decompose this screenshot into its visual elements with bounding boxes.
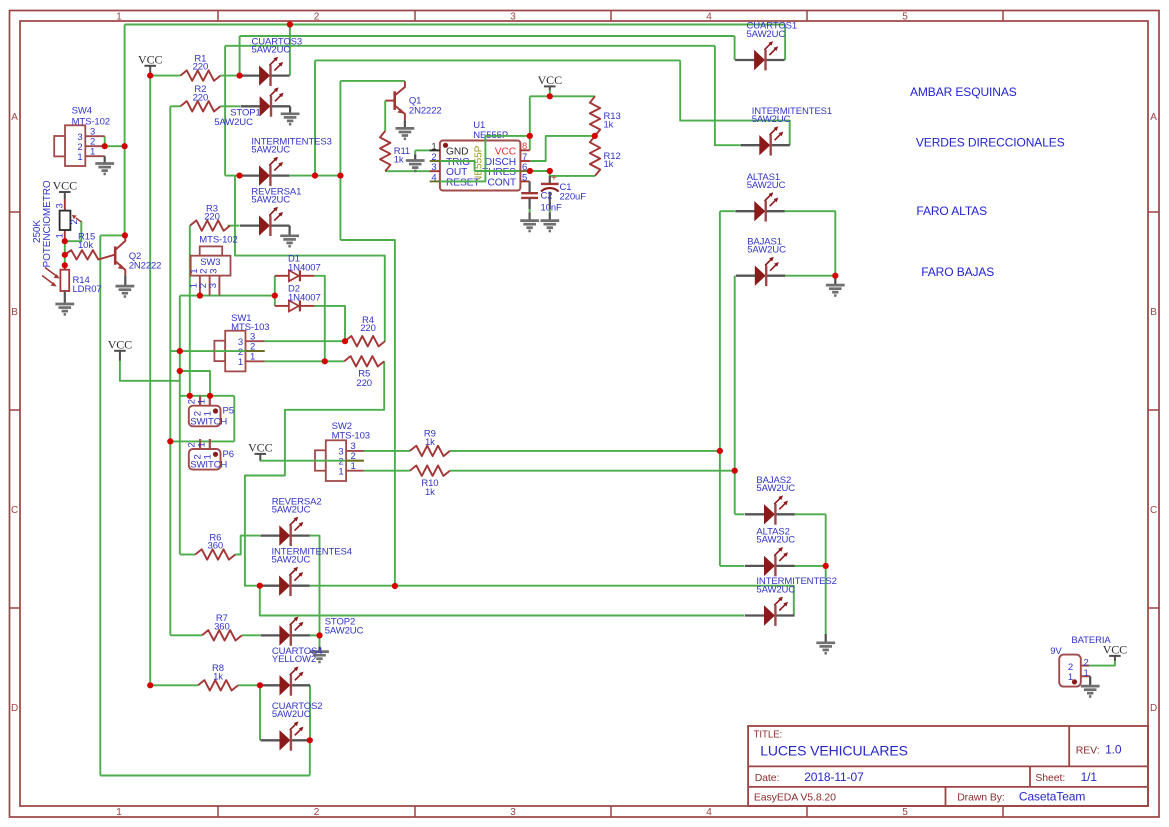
svg-text:1: 1	[338, 466, 343, 477]
svg-text:YELLOW2: YELLOW2	[272, 654, 316, 665]
wire RESET route	[440, 136, 530, 182]
LED INTERMITENTES4	[260, 585, 279, 587]
svg-text:1: 1	[431, 141, 436, 152]
wire VCC5 to SW2 pin2	[260, 459, 364, 462]
wire REVERSA2 cathode drop	[310, 536, 320, 636]
switch SW4 MTS-102	[65, 125, 85, 166]
wire R3 to REVERSA1	[228, 225, 240, 227]
wire Q1 base	[384, 100, 387, 102]
svg-text:1: 1	[116, 807, 122, 818]
wire ALTAS vertical	[719, 211, 721, 566]
wire R11 to OUT	[385, 170, 430, 172]
resistor R8	[198, 680, 238, 690]
svg-text:5AW2UC: 5AW2UC	[252, 44, 291, 55]
svg-text:VCC: VCC	[53, 179, 77, 193]
frame row ticks right	[1148, 211, 1159, 213]
ground below C2	[528, 219, 530, 222]
wire D1 cathode run	[314, 276, 325, 362]
wire ALTAS2 anode	[720, 565, 745, 567]
svg-text:P6: P6	[223, 449, 234, 460]
svg-text:TITLE:: TITLE:	[754, 730, 782, 741]
photoresistor R14 arrows	[45, 268, 57, 277]
svg-text:FARO ALTAS: FARO ALTAS	[916, 204, 987, 218]
resistor R6	[195, 549, 235, 559]
wire R6 left riser	[180, 554, 195, 556]
svg-text:AMBAR ESQUINAS: AMBAR ESQUINAS	[910, 85, 1017, 99]
capacitor C2 10nF	[528, 181, 530, 193]
wire CUARTOS1 cathode riser	[784, 25, 786, 61]
svg-text:1: 1	[116, 12, 122, 23]
ground below C1	[549, 219, 551, 222]
wire VCC4 stub	[549, 90, 551, 96]
LED CUARTOS3	[240, 74, 259, 76]
wire R9 rail	[450, 450, 720, 452]
transistor Q2 2N2222	[114, 246, 117, 264]
wire R2 elbow	[170, 105, 180, 107]
svg-text:1k: 1k	[394, 154, 404, 165]
wire P5 to P6 link	[233, 396, 235, 442]
resistor R3	[190, 220, 230, 230]
wire Q1 base drop to R11	[384, 101, 386, 131]
wire VCC4 rail	[530, 95, 595, 97]
SW1 pin leads	[246, 340, 265, 342]
resistor R10	[410, 466, 450, 476]
svg-text:220: 220	[360, 323, 376, 334]
wire D2 cathode run	[314, 306, 345, 341]
svg-text:P5: P5	[223, 406, 234, 417]
svg-text:Sheet:: Sheet:	[1035, 772, 1065, 784]
svg-text:3: 3	[208, 283, 219, 288]
svg-text:VCC: VCC	[108, 337, 132, 351]
wire BAJAS2 anode	[735, 513, 745, 515]
resistor R4	[345, 336, 385, 346]
ground at BAJAS1 cathode	[834, 276, 836, 285]
wire y46 rail	[225, 45, 715, 47]
svg-text:2: 2	[314, 807, 320, 818]
wire BAJAS2 ground drop	[825, 514, 827, 634]
svg-text:B: B	[11, 307, 18, 318]
svg-text:5AW2UC: 5AW2UC	[756, 584, 795, 595]
connector BATERIA 9V	[1059, 655, 1081, 687]
resistor R7	[202, 630, 242, 640]
wire GND1	[415, 149, 430, 151]
wire SW4 pin2 link	[105, 145, 125, 147]
svg-text:1: 1	[238, 357, 243, 368]
svg-text:5AW2UC: 5AW2UC	[325, 626, 364, 637]
svg-text:5AW2UC: 5AW2UC	[747, 29, 786, 40]
svg-text:C: C	[11, 505, 18, 516]
wire CUARTOS3 cathode riser	[289, 25, 291, 76]
svg-text:3: 3	[510, 807, 516, 818]
wire R12 bottom to C1	[550, 171, 595, 176]
svg-text:220: 220	[193, 92, 209, 103]
wire CUARTOS1 anode drop	[734, 36, 736, 60]
svg-text:2N2222: 2N2222	[409, 106, 442, 117]
svg-text:1k: 1k	[213, 671, 223, 682]
switch SW2 MTS-103	[315, 450, 326, 470]
svg-text:5AW2UC: 5AW2UC	[272, 709, 311, 720]
wire INTERMITENTES4 cathode rail	[310, 586, 794, 616]
LED CUARTOS4	[261, 684, 280, 686]
wire Q1 collector run	[340, 80, 405, 82]
wire STOP2 cathode	[310, 634, 320, 636]
svg-text:EasyEDA V5.8.20: EasyEDA V5.8.20	[754, 791, 836, 803]
svg-text:4: 4	[706, 807, 712, 818]
wire battery to VCC	[1089, 661, 1115, 666]
svg-text:3: 3	[55, 203, 66, 208]
wire SW1 pin2 overlay	[214, 350, 245, 352]
svg-text:B: B	[1150, 307, 1157, 318]
wire BAJAS2 cathode route	[795, 513, 826, 515]
svg-text:1: 1	[351, 461, 356, 472]
wire CUARTOS4 cathode drop	[309, 685, 311, 740]
svg-text:1.0: 1.0	[1105, 743, 1122, 757]
svg-text:1: 1	[196, 399, 207, 404]
switch SW1 MTS-103	[214, 341, 225, 361]
svg-text:220: 220	[356, 378, 372, 389]
ground below R14	[64, 302, 66, 305]
svg-text:5AW2UC: 5AW2UC	[214, 117, 253, 128]
svg-text:C: C	[1150, 505, 1157, 516]
svg-text:1: 1	[196, 442, 207, 447]
LED REVERSA2	[260, 534, 279, 536]
svg-text:2018-11-07: 2018-11-07	[804, 770, 864, 784]
ground below STOP1	[289, 106, 291, 114]
svg-text:REV:: REV:	[1076, 745, 1100, 757]
svg-text:10k: 10k	[78, 240, 93, 251]
wire BAJAS1 cathode	[785, 275, 835, 277]
svg-text:4: 4	[706, 12, 712, 23]
BATERIA ground	[1089, 676, 1091, 686]
LED CUARTOS2	[261, 739, 280, 741]
wire THRES row	[475, 170, 520, 172]
potentiometer wiper arrow	[76, 218, 81, 222]
LED STOP2	[260, 634, 279, 636]
svg-text:1: 1	[250, 351, 255, 362]
LED STOP1	[241, 105, 260, 107]
svg-text:5: 5	[522, 172, 527, 183]
potentiometer RV1 250K body	[64, 199, 66, 211]
diode D2 1N4007	[289, 300, 299, 311]
svg-text:CasetaTeam: CasetaTeam	[1019, 789, 1085, 803]
svg-text:SWITCH: SWITCH	[190, 416, 227, 427]
wire to Q2 collector	[100, 234, 125, 236]
wire ALTAS2 cathode	[795, 565, 826, 567]
wire SW2 pin2 overlay	[314, 460, 345, 462]
svg-text:5AW2UC: 5AW2UC	[752, 114, 791, 125]
wire x340 vertical	[339, 81, 341, 240]
wire ALTAS1 anode	[720, 210, 735, 212]
svg-text:SW3: SW3	[200, 257, 220, 268]
wire x235 drop to SW3 rail	[235, 176, 385, 342]
svg-text:MTS-102: MTS-102	[72, 116, 110, 127]
SW3 pin leads	[199, 276, 201, 296]
frame column ticks bottom	[217, 806, 219, 817]
wire into INTERMITENTES3 anode	[225, 175, 239, 177]
svg-text:FARO BAJAS: FARO BAJAS	[921, 265, 994, 279]
op-amp U1 NE555P box	[440, 141, 521, 191]
BATERIA pin leads	[1081, 665, 1090, 667]
U1 pin leads left	[430, 149, 440, 151]
svg-text:VCC: VCC	[138, 52, 162, 66]
LED BAJAS2	[745, 513, 764, 515]
wire x99 vertical	[99, 235, 101, 775]
wire D1 anode lead	[275, 275, 289, 277]
svg-text:360: 360	[208, 541, 224, 552]
wire R10 rail	[450, 470, 735, 472]
svg-text:5AW2UC: 5AW2UC	[272, 504, 311, 515]
svg-text:D: D	[1150, 703, 1157, 714]
wire jog to x395	[340, 240, 395, 586]
resistor R13	[590, 96, 600, 136]
svg-text:MTS-103: MTS-103	[332, 431, 370, 442]
ground below SW4 pin1	[104, 156, 106, 163]
wire R2 to STOP1	[220, 105, 240, 107]
wire top rail	[125, 24, 786, 26]
resistor R1	[180, 70, 220, 80]
wire GND1 drop	[414, 150, 416, 154]
svg-text:5: 5	[902, 12, 908, 23]
resistor R12	[590, 136, 600, 176]
SW4 pin leads	[85, 135, 104, 137]
wire BAJAS vertical	[734, 276, 736, 515]
LED INTERMITENTES1	[740, 144, 759, 146]
svg-text:2: 2	[314, 12, 320, 23]
ground below BAJAS2/ALTAS2	[825, 634, 827, 643]
svg-text:1: 1	[90, 146, 95, 157]
wire R1 riser	[239, 36, 241, 76]
junction dots	[147, 73, 153, 79]
P5 pin1 marker	[213, 408, 218, 413]
svg-text:VCC: VCC	[495, 146, 516, 157]
wire SW1 pin1 to R5	[265, 360, 345, 362]
wire x170 rail	[169, 106, 171, 635]
svg-text:VCC: VCC	[248, 440, 272, 454]
svg-text:360: 360	[214, 621, 230, 632]
title block outline	[748, 726, 1148, 806]
svg-text:8: 8	[522, 141, 527, 152]
svg-text:1k: 1k	[425, 437, 435, 448]
svg-text:C2: C2	[541, 191, 553, 202]
svg-text:LDR07: LDR07	[73, 284, 102, 295]
resistor R2	[180, 101, 220, 111]
wire SW4 pin3 elbow	[104, 136, 106, 146]
svg-text:GND: GND	[446, 146, 468, 157]
wire R7 to STOP2	[242, 634, 260, 636]
svg-text:MTS-103: MTS-103	[231, 322, 269, 333]
LED INTERMITENTES2	[745, 614, 764, 616]
ground below Q1	[404, 127, 406, 130]
wire P6 rail	[170, 440, 234, 442]
svg-text:SW4: SW4	[72, 106, 92, 117]
wire pin8 riser	[529, 96, 531, 150]
svg-text:2: 2	[69, 219, 80, 224]
svg-text:1/1: 1/1	[1081, 770, 1098, 784]
wire SW2 pin3 to R9	[364, 450, 410, 452]
diode D1 1N4007	[289, 270, 299, 281]
svg-text:5AW2UC: 5AW2UC	[756, 535, 795, 546]
svg-text:5AW2UC: 5AW2UC	[747, 245, 786, 256]
svg-text:5: 5	[902, 807, 908, 818]
wire R1 to CUARTOS3	[220, 75, 239, 77]
resistor R15	[65, 250, 115, 259]
wire y36 rail	[240, 35, 735, 37]
svg-text:1k: 1k	[604, 119, 614, 130]
svg-text:9V: 9V	[1050, 646, 1062, 657]
LED INTERMITENTES3	[240, 174, 259, 176]
ground below STOP2	[319, 635, 321, 646]
switch SW3 MTS-102	[200, 246, 223, 255]
svg-text:LUCES VEHICULARES: LUCES VEHICULARES	[760, 743, 908, 759]
wire SW3 pin1 rail	[180, 295, 275, 297]
svg-text:1: 1	[1084, 668, 1089, 679]
Q2 emitter lead	[124, 275, 126, 286]
ground for GND1	[414, 155, 416, 161]
svg-text:SWITCH: SWITCH	[190, 460, 227, 471]
connector P6 SWITCH	[199, 439, 201, 449]
svg-text:1k: 1k	[604, 159, 614, 170]
svg-text:POTENCIOMETRO: POTENCIOMETRO	[42, 180, 53, 267]
wire VCC3 elbow	[120, 360, 180, 380]
SW2 pin leads	[346, 450, 364, 452]
svg-text:1: 1	[55, 233, 66, 238]
svg-text:MTS-102: MTS-102	[199, 234, 237, 245]
ground below Q2	[124, 285, 126, 288]
title block dividers	[748, 765, 1148, 767]
svg-text:A: A	[1150, 112, 1157, 123]
wire x315 vertical	[314, 60, 316, 175]
resistor R9	[410, 446, 450, 456]
wire ALTAS1 cathode route	[785, 211, 836, 276]
wire THRES to C1	[530, 170, 550, 172]
svg-text:5AW2UC: 5AW2UC	[756, 483, 795, 494]
wire INTERMITENTES1 anode drop	[715, 46, 740, 145]
svg-text:5AW2UC: 5AW2UC	[272, 555, 311, 566]
wire INTERMITENTES3 cathode	[290, 175, 341, 177]
wire y60 rail	[315, 59, 680, 61]
svg-text:A: A	[11, 112, 18, 123]
svg-text:Date:: Date:	[755, 772, 780, 784]
wire P5 rail	[180, 395, 235, 397]
LED ALTAS2	[745, 565, 764, 567]
svg-text:5AW2UC: 5AW2UC	[747, 180, 786, 191]
wire R3 left drop	[189, 226, 191, 396]
svg-text:D: D	[11, 703, 18, 714]
wire CUARTOS2 cathode to bottom rail	[309, 740, 311, 775]
svg-text:5AW2UC: 5AW2UC	[251, 144, 290, 155]
capacitor C1 220uF	[549, 176, 551, 184]
svg-text:1N4007: 1N4007	[288, 263, 321, 274]
resistor R5	[344, 356, 384, 366]
svg-text:10nF: 10nF	[541, 202, 563, 213]
svg-text:VCC: VCC	[538, 73, 562, 87]
Q1 emitter lead	[404, 120, 406, 128]
wire x180 vertical	[179, 296, 181, 555]
wire D2 anode lead	[275, 305, 289, 307]
frame row ticks left	[10, 211, 21, 213]
U1 pin leads right	[520, 149, 529, 151]
wire D1 D2 anode link	[274, 276, 276, 306]
frame column ticks top	[217, 11, 219, 22]
svg-text:3: 3	[208, 269, 219, 274]
LED REVERSA1	[240, 224, 259, 226]
U1 pin1 marker	[443, 143, 448, 148]
resistor R11	[380, 131, 390, 171]
svg-text:220: 220	[204, 212, 220, 223]
svg-text:VERDES DIRECCIONALES: VERDES DIRECCIONALES	[916, 136, 1065, 150]
wire R6 to REVERSA2	[235, 536, 259, 555]
connector P5 SWITCH	[199, 396, 201, 406]
svg-text:4: 4	[431, 172, 436, 183]
svg-text:BATERIA: BATERIA	[1071, 635, 1111, 646]
transistor Q1 2N2222	[393, 91, 396, 110]
LED ALTAS1	[735, 210, 754, 212]
svg-text:5AW2UC: 5AW2UC	[251, 194, 290, 205]
wire VCC rail vertical	[149, 76, 151, 686]
wire R5 right route to INTERMITENTES4	[245, 361, 384, 585]
wire R8 to CUARTOS4	[238, 684, 260, 686]
wire CUARTOS4 to CUARTOS2 anode	[259, 685, 261, 740]
wire R8 feed	[150, 684, 198, 686]
wire x125 vertical	[124, 25, 126, 236]
wire SW1 pin2 rail	[170, 350, 264, 352]
wire DISCH route	[530, 136, 595, 161]
svg-text:220uF: 220uF	[560, 191, 587, 202]
ground after REVERSA1	[288, 224, 290, 226]
wire INTERMITENTES2 anode rail	[260, 586, 745, 616]
svg-text:Drawn By:: Drawn By:	[957, 791, 1005, 803]
svg-text:220: 220	[193, 62, 209, 73]
svg-text:1: 1	[77, 152, 82, 163]
wire bottom rail	[100, 775, 309, 777]
LED CUARTOS1	[735, 59, 754, 61]
wire pot wiper route	[65, 221, 82, 242]
photoresistor R14 body	[64, 265, 66, 269]
svg-text:CONT: CONT	[488, 177, 516, 188]
wire pot to R14	[64, 241, 66, 265]
svg-text:2: 2	[1084, 657, 1089, 668]
svg-text:3: 3	[510, 12, 516, 23]
wire R7 feed	[170, 634, 202, 636]
wire jog x680	[680, 60, 790, 145]
svg-text:1k: 1k	[425, 487, 435, 498]
wire SW2 pin1 to R10	[364, 470, 410, 472]
wire VCC1 to R1	[150, 75, 180, 77]
wire to P5 pin1	[180, 371, 210, 396]
svg-text:+: +	[551, 172, 557, 184]
P6 pin1 marker	[213, 452, 218, 457]
svg-text:1N4007: 1N4007	[288, 293, 321, 304]
wire x225 vertical	[224, 46, 226, 176]
LED BAJAS1	[736, 275, 755, 277]
svg-text:2N2222: 2N2222	[129, 261, 162, 272]
BATERIA pin1 marker	[1072, 679, 1077, 684]
wire SW1 pin3 to R4	[265, 340, 345, 342]
wire TRIG jog	[440, 161, 475, 171]
